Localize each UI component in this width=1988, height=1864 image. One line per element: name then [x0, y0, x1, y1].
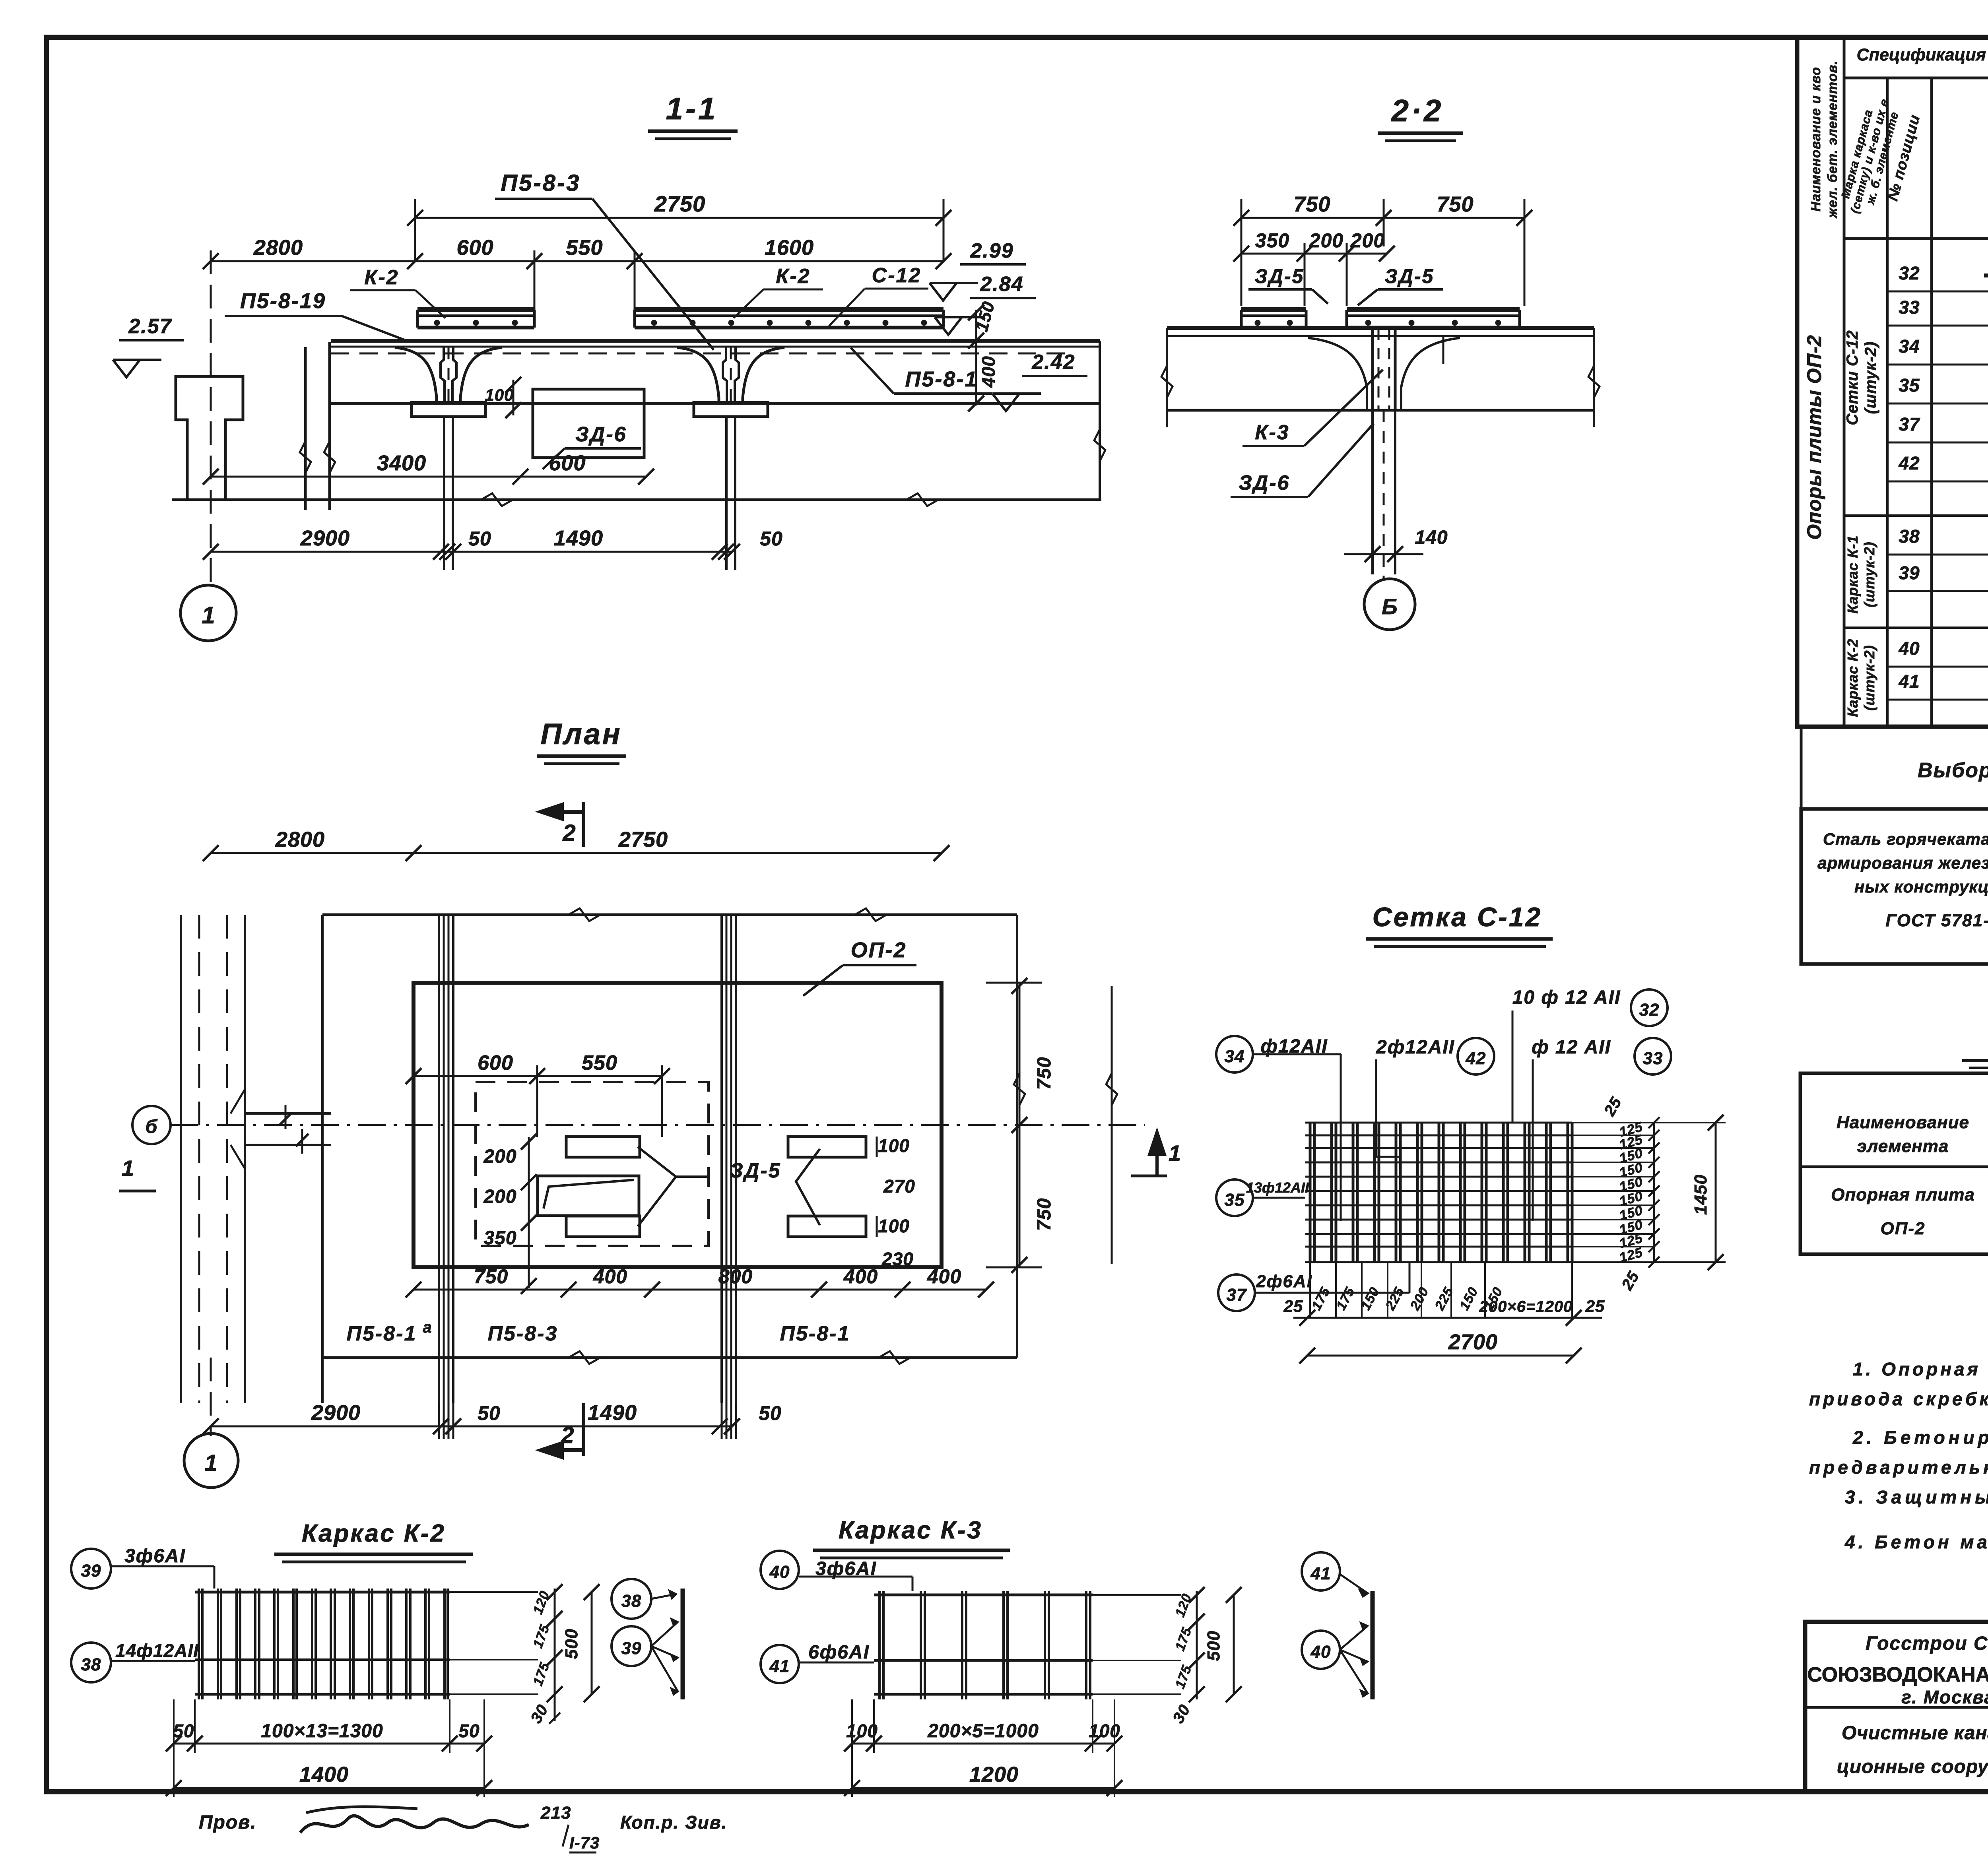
label ЗД-6 (section 1-1) [543, 423, 641, 469]
embedded plate ЗД-6 rectangle (section) [533, 389, 644, 458]
svg-text:400: 400 [593, 1265, 627, 1288]
label К-2 right with leader [734, 265, 823, 318]
view title: section 1-1 [648, 91, 738, 139]
svg-text:550: 550 [582, 1051, 617, 1075]
svg-text:привода скребкового механизма: привода скребкового механизма нефтеловуш… [1809, 1389, 1988, 1409]
svg-text:2.99: 2.99 [970, 239, 1013, 262]
svg-text:жел. бет. элементов.: жел. бет. элементов. [1825, 60, 1840, 219]
bottom slab line and boundaries (section 2-2) [1161, 328, 1600, 427]
svg-text:50: 50 [759, 1402, 782, 1424]
title block frame [1805, 1622, 1988, 1792]
callout 38 14ф12АII (K-2) [71, 1640, 199, 1682]
svg-text:1490: 1490 [588, 1401, 637, 1425]
svg-text:35: 35 [1899, 375, 1920, 396]
K-3 bottom dimensions [844, 1699, 1122, 1797]
mesh right-side dimension chain [1572, 1094, 1726, 1293]
svg-text:35: 35 [1225, 1190, 1245, 1210]
callout circle 35 13ф12АII [1216, 1179, 1309, 1216]
svg-text:140: 140 [1415, 527, 1448, 548]
svg-text:ОП-2: ОП-2 [1881, 1219, 1926, 1238]
svg-text:14ф12АII: 14ф12АII [115, 1640, 199, 1661]
dimension 750/750 (section 2-2) [1233, 192, 1532, 306]
svg-text:Опоры плиты ОП-2: Опоры плиты ОП-2 [1803, 335, 1825, 540]
svg-text:750: 750 [1293, 192, 1330, 216]
view title: План [537, 718, 626, 764]
svg-text:предварительно насеченной пове: предварительно насеченной поверхности пл… [1809, 1457, 1988, 1478]
svg-text:270: 270 [883, 1176, 915, 1197]
caption: Таблица закладных деталей [1962, 1029, 1988, 1068]
elevation mark 2.57 [113, 315, 184, 377]
callout 39 3ф6АI (K-2) [71, 1546, 214, 1589]
embedded parts table [1800, 1073, 1988, 1265]
section cut 2 top (plan) [539, 802, 584, 847]
callout 40 3ф6АI (K-3) [761, 1551, 912, 1591]
svg-text:2800: 2800 [253, 236, 303, 260]
dimension row 2800/600/550/1600 [203, 236, 951, 312]
label С-12 with leader [829, 264, 928, 326]
svg-text:а: а [423, 1319, 432, 1336]
pedestal (column) at axis 1 [176, 376, 243, 500]
svg-text:42: 42 [1466, 1049, 1486, 1068]
svg-text:2ф12АII: 2ф12АII [1376, 1037, 1455, 1058]
svg-text:40: 40 [1898, 638, 1920, 659]
svg-text:П5-8-3: П5-8-3 [501, 170, 580, 196]
svg-text:500: 500 [1204, 1631, 1223, 1661]
svg-text:1-1: 1-1 [666, 91, 718, 126]
K-3 right dimension chain [1169, 1587, 1242, 1726]
section cut 1 right (plan) [1131, 1131, 1181, 1176]
svg-text:100×13=1300: 100×13=1300 [261, 1720, 383, 1742]
callout circle 33 ф12АII [1532, 1037, 1671, 1221]
svg-text:10 ф 12 АII: 10 ф 12 АII [1512, 987, 1621, 1008]
svg-text:2700: 2700 [1448, 1330, 1498, 1354]
ribbed panel rib right (section) [677, 347, 719, 402]
svg-text:100: 100 [878, 1216, 910, 1236]
dimension 2750 (section 1-1) [407, 191, 951, 262]
svg-text:25: 25 [1585, 1297, 1605, 1315]
svg-text:750: 750 [1437, 192, 1474, 216]
svg-text:П5-8-19: П5-8-19 [240, 289, 326, 313]
elevation mark 2.84 [935, 273, 1036, 335]
svg-text:П5-8-3: П5-8-3 [488, 1322, 558, 1345]
view title: Сетка С-12 [1366, 902, 1553, 947]
K-3 side view bar with callouts 41/40 [1302, 1552, 1373, 1699]
svg-text:2·2: 2·2 [1391, 93, 1444, 128]
svg-text:Опорная плита: Опорная плита [1831, 1185, 1975, 1205]
note 3 [1845, 1487, 1988, 1507]
spec table row gridlines [1844, 291, 1988, 700]
svg-text:750: 750 [474, 1265, 508, 1288]
label П5-8-19 with leader [225, 289, 408, 341]
svg-text:600: 600 [456, 236, 493, 260]
deck top line with dashed rebar line [331, 341, 1100, 353]
view title: Каркас К-3 [813, 1517, 1010, 1558]
mesh C-12 grid [1305, 1123, 1572, 1262]
dimension 2900/50/1490/50 (section 1-1) [203, 526, 783, 560]
svg-text:СОЮЗВОДОКАНАЛПРОЕКТ: СОЮЗВОДОКАНАЛПРОЕКТ [1807, 1663, 1988, 1686]
dimension 2800/2750 (plan) [203, 828, 949, 861]
svg-text:34: 34 [1899, 336, 1920, 357]
slab right (section 2-2) [1347, 310, 1520, 328]
svg-text:2: 2 [562, 820, 576, 846]
svg-text:I-73: I-73 [569, 1833, 600, 1852]
view title: Каркас К-2 [274, 1520, 473, 1562]
svg-text:ОП-2: ОП-2 [851, 938, 907, 962]
caption: Выборка арматуры на 1 железобетонный элемент [1801, 727, 1988, 964]
svg-text:1600: 1600 [765, 236, 814, 260]
slot upper (plan) [566, 1137, 640, 1157]
ribbed panel rib left (section) [395, 347, 437, 402]
dimension 2900/50/1490/50 (plan) [203, 1358, 782, 1439]
callout circle 37 2ф6АI [1218, 1263, 1409, 1311]
svg-text:Сталь горячекатаная для: Сталь горячекатаная для [1823, 830, 1988, 848]
section cut 2 bottom (plan) [539, 1403, 584, 1458]
svg-text:Каркас К-1: Каркас К-1 [1844, 535, 1861, 613]
section cut 1 left (plan) [119, 1156, 156, 1191]
note 1 [1809, 1359, 1988, 1409]
svg-text:350: 350 [483, 1228, 516, 1249]
elevation mark 2.42 [992, 351, 1087, 411]
svg-text:200: 200 [483, 1186, 516, 1207]
svg-text:2.57: 2.57 [128, 315, 172, 338]
spec table frame [1797, 37, 1988, 727]
spec table column header texts [1808, 45, 1988, 244]
svg-text:2. Бетонируется опорная плита: 2. Бетонируется опорная плита ОП-2 на ме… [1852, 1427, 1988, 1448]
svg-text:Наименование: Наименование [1837, 1113, 1969, 1132]
svg-text:41: 41 [1310, 1564, 1331, 1583]
axis line Б horizontal (plan) [170, 1124, 1145, 1126]
svg-text:41: 41 [1898, 671, 1920, 692]
svg-text:34: 34 [1225, 1047, 1245, 1066]
axis line 1 (section 1-1) [210, 250, 212, 585]
svg-text:37: 37 [1227, 1285, 1247, 1305]
svg-text:г. Москва: г. Москва [1901, 1687, 1988, 1707]
svg-text:550: 550 [566, 236, 603, 260]
svg-text:3400: 3400 [377, 451, 426, 475]
svg-text:200: 200 [1350, 229, 1385, 252]
svg-text:ЗД-5: ЗД-5 [730, 1159, 781, 1182]
svg-text:элемента: элемента [1857, 1137, 1949, 1156]
mesh K-2 grid [195, 1589, 538, 1699]
svg-text:38: 38 [1899, 526, 1920, 547]
svg-text:41: 41 [769, 1656, 790, 1676]
svg-text:230: 230 [881, 1249, 914, 1269]
dimension 350/200/200 (section 2-2) [1233, 229, 1395, 306]
svg-text:2.84: 2.84 [980, 273, 1023, 296]
svg-text:200×6=1200: 200×6=1200 [1479, 1298, 1573, 1315]
svg-text:200: 200 [483, 1146, 516, 1167]
panel field bottom edge (plan) [322, 915, 1017, 1364]
svg-text:2ф6АI: 2ф6АI [1256, 1272, 1312, 1291]
svg-text:6ф6АI: 6ф6АI [808, 1642, 870, 1663]
svg-text:350: 350 [1255, 229, 1289, 252]
slot right lower (plan) [788, 1216, 866, 1237]
axis circle 1 (section 1-1) [181, 585, 236, 641]
svg-text:50: 50 [173, 1720, 194, 1741]
callout 41 6ф6АI (K-3) [761, 1642, 874, 1683]
label ЗД-6 (section 2-2) with leader [1231, 423, 1374, 497]
svg-text:Коп.р. Зив.: Коп.р. Зив. [620, 1812, 727, 1833]
svg-text:(штук-2): (штук-2) [1862, 341, 1879, 414]
svg-text:1: 1 [122, 1156, 134, 1181]
svg-text:39: 39 [1899, 562, 1920, 583]
svg-text:Спецификация арматуры на желез: Спецификация арматуры на железобетонный … [1857, 45, 1988, 64]
svg-text:200: 200 [1309, 229, 1343, 252]
svg-text:П5-8-1: П5-8-1 [347, 1322, 417, 1345]
svg-text:ЗД-6: ЗД-6 [1239, 471, 1290, 495]
svg-text:400: 400 [978, 356, 999, 388]
mesh K-3 grid [874, 1591, 1181, 1699]
vertical dim 750/750 (plan right) [986, 978, 1117, 1273]
slot right upper (plan) [788, 1137, 866, 1157]
svg-text:50: 50 [760, 528, 783, 550]
approval signature line [199, 1803, 727, 1852]
dim 100 (pad height) [485, 377, 521, 418]
view title: section 2-2 [1378, 93, 1463, 141]
svg-text:1. Опорная плита ОП-2 предназн: 1. Опорная плита ОП-2 предназначается дл… [1853, 1359, 1988, 1379]
svg-text:200×5=1000: 200×5=1000 [927, 1720, 1039, 1742]
svg-text:Каркас К-2: Каркас К-2 [1844, 638, 1861, 717]
svg-text:50: 50 [478, 1402, 501, 1424]
note 4 [1844, 1532, 1988, 1552]
embedded plate dashed outline (plan) [476, 1082, 709, 1246]
wall in plan (left) [181, 915, 331, 1403]
K-2 side view bar with callouts 38/39 [612, 1579, 683, 1699]
svg-text:1490: 1490 [554, 526, 603, 550]
svg-text:К-2: К-2 [776, 265, 810, 288]
axis circle Б (section 2-2) [1364, 576, 1415, 630]
svg-text:100: 100 [878, 1135, 910, 1156]
title block: Госстрой СССР / Союзводоканалпроект / г. Москва [1807, 1633, 1988, 1707]
svg-text:750: 750 [1034, 1057, 1055, 1090]
svg-text:33: 33 [1899, 297, 1920, 318]
svg-text:Госстрои СССР: Госстрои СССР [1866, 1633, 1988, 1654]
svg-text:(штук-2): (штук-2) [1861, 541, 1877, 607]
label П5-8-3 with leader [495, 170, 714, 350]
svg-text:750: 750 [1034, 1198, 1055, 1231]
deck lines (section 2-2) [1167, 328, 1594, 336]
label П5-8-1 with leader [851, 348, 992, 394]
mesh bottom dimension chain [1283, 1262, 1605, 1364]
floor line under ribs [331, 341, 1105, 500]
ground line with breaks [172, 493, 1101, 506]
svg-text:2750: 2750 [618, 828, 668, 852]
svg-text:3. Защитный слой бетона для ар: 3. Защитный слой бетона для арматур прин… [1845, 1487, 1988, 1507]
svg-text:2750: 2750 [654, 191, 706, 216]
callout circle 42 2ф12АII [1376, 1037, 1494, 1157]
svg-text:42: 42 [1898, 453, 1920, 473]
svg-text:33: 33 [1643, 1049, 1663, 1068]
svg-text:100: 100 [1089, 1720, 1120, 1741]
svg-text:3ф6АI: 3ф6АI [124, 1546, 186, 1567]
panel field top edge (plan) [322, 908, 1017, 1403]
svg-text:ЗД-6: ЗД-6 [575, 423, 627, 446]
svg-text:38: 38 [81, 1655, 101, 1674]
svg-text:Выборка арматуры на 1 железобе: Выборка арматуры на 1 железобетонный эле… [1918, 759, 1988, 782]
title block: Очистные канализационные сооружения [1837, 1722, 1988, 1777]
K-2 right dimension chain [527, 1584, 600, 1726]
svg-text:Наименование и кво: Наименование и кво [1808, 67, 1823, 211]
wall below joint (section 2-2) [1344, 410, 1448, 576]
svg-text:32: 32 [1899, 263, 1920, 283]
svg-text:100: 100 [846, 1720, 878, 1741]
svg-text:Сетка С-12: Сетка С-12 [1373, 902, 1542, 932]
svg-text:Очистные канализа-: Очистные канализа- [1842, 1722, 1988, 1744]
support plate ОП-2 outline (plan) [414, 983, 942, 1267]
dimension 3400 / 600 [203, 451, 654, 485]
dimension 750/400/800/400/400 (plan bottom) [406, 1265, 994, 1298]
spec table data rows [1898, 252, 1988, 692]
roof slab П5-8-3 right part (section) [635, 310, 944, 328]
svg-text:Каркас К-2: Каркас К-2 [302, 1520, 446, 1547]
labels ЗД-5 (section 2-2) [1248, 265, 1443, 305]
wall double line left of rib [300, 342, 335, 510]
svg-text:40: 40 [769, 1562, 790, 1582]
svg-text:2900: 2900 [300, 526, 350, 550]
svg-text:39: 39 [81, 1561, 101, 1581]
callout circle 32 10ф12АII [1512, 987, 1668, 1123]
svg-text:1400: 1400 [299, 1763, 349, 1786]
svg-text:1200: 1200 [969, 1763, 1019, 1786]
panel joint web (section 2-2) [1308, 329, 1460, 409]
svg-text:ЗД-5: ЗД-5 [1385, 265, 1435, 287]
svg-text:400: 400 [843, 1265, 878, 1288]
svg-text:213: 213 [540, 1803, 571, 1823]
K-2 bottom dimensions [166, 1699, 492, 1797]
dims 200/200/350 (plan left column) [483, 1134, 537, 1294]
svg-text:ных конструкций: ных конструкций [1854, 877, 1988, 896]
svg-text:(штук-2): (штук-2) [1861, 645, 1877, 710]
label К-2 left with leader [350, 266, 445, 318]
label ОП-2 with leader (plan) [803, 938, 916, 996]
svg-text:25: 25 [1283, 1297, 1303, 1315]
dimension 600/550 (plan) [406, 1051, 670, 1137]
steel summary table [1801, 809, 1988, 964]
panel joint lines right (plan) [722, 915, 736, 1403]
svg-text:13ф12АII: 13ф12АII [1246, 1179, 1309, 1196]
axis circle 1 (plan) [184, 1433, 238, 1488]
svg-text:4. Бетон марки 200 (обычный: 4. Бетон марки 200 (обычный) [1844, 1532, 1988, 1552]
vertical dim 150 / 400 (right side) [968, 299, 999, 411]
svg-text:37: 37 [1899, 414, 1920, 434]
svg-text:ф 12 АII: ф 12 АII [1532, 1037, 1611, 1058]
svg-text:1450: 1450 [1691, 1174, 1710, 1215]
elevation mark 2.99 [930, 239, 1026, 301]
label ЗД-5 with arrows (plan) [730, 1149, 820, 1225]
svg-text:2800: 2800 [275, 828, 325, 852]
roof slab П5-8-3 left part (section) [417, 310, 534, 328]
svg-text:П5-8-1: П5-8-1 [780, 1322, 850, 1345]
svg-text:П5-8-1: П5-8-1 [905, 367, 978, 391]
anchor plate (plan) [538, 1176, 639, 1216]
svg-text:С-12: С-12 [872, 264, 922, 287]
anchor arrows ЗД-5 center (plan) [638, 1147, 708, 1226]
dims 100/270/100/230 (plan right column) [877, 1135, 915, 1269]
svg-text:50: 50 [468, 528, 491, 550]
spec table left rotated group labels [1803, 330, 1879, 717]
svg-text:План: План [540, 718, 622, 751]
note 2 [1809, 1427, 1988, 1478]
svg-text:К-3: К-3 [1255, 421, 1289, 444]
svg-text:500: 500 [562, 1629, 581, 1659]
svg-text:б: б [146, 1116, 158, 1137]
svg-text:ГОСТ 5781-21: ГОСТ 5781-21 [1885, 911, 1988, 930]
callout circle 34 ф12АII [1216, 1036, 1341, 1221]
svg-text:600: 600 [549, 451, 586, 475]
svg-text:38: 38 [621, 1591, 642, 1611]
svg-text:Б: Б [1382, 594, 1398, 619]
svg-text:2: 2 [561, 1422, 574, 1448]
svg-text:400: 400 [927, 1265, 961, 1288]
svg-text:Пров.: Пров. [199, 1812, 257, 1833]
svg-text:800: 800 [718, 1265, 753, 1288]
svg-text:600: 600 [478, 1051, 513, 1075]
panel labels П5-8-1а П5-8-3 П5-8-1 [347, 1319, 850, 1345]
svg-text:1: 1 [1169, 1141, 1181, 1166]
slab left (section 2-2) [1241, 310, 1306, 328]
svg-text:армирования железобетон-: армирования железобетон- [1817, 853, 1988, 872]
svg-text:50: 50 [458, 1720, 480, 1741]
svg-text:Каркас К-3: Каркас К-3 [839, 1517, 982, 1544]
label К-3 with leader [1242, 370, 1383, 446]
svg-text:32: 32 [1639, 1000, 1660, 1020]
svg-text:К-2: К-2 [364, 266, 399, 289]
svg-text:Сетки С-12: Сетки С-12 [1844, 330, 1861, 425]
svg-text:2900: 2900 [311, 1401, 361, 1425]
panel joint lines left (plan) [439, 915, 453, 1403]
svg-text:1: 1 [202, 602, 215, 628]
axis circle Б (plan) [132, 1106, 171, 1144]
svg-text:ЗД-5: ЗД-5 [1255, 265, 1305, 287]
slot lower (plan) [566, 1216, 640, 1237]
svg-text:ционные сооружения.: ционные сооружения. [1837, 1756, 1988, 1777]
svg-text:40: 40 [1310, 1642, 1331, 1662]
svg-text:39: 39 [621, 1639, 642, 1658]
svg-text:1: 1 [204, 1450, 217, 1476]
